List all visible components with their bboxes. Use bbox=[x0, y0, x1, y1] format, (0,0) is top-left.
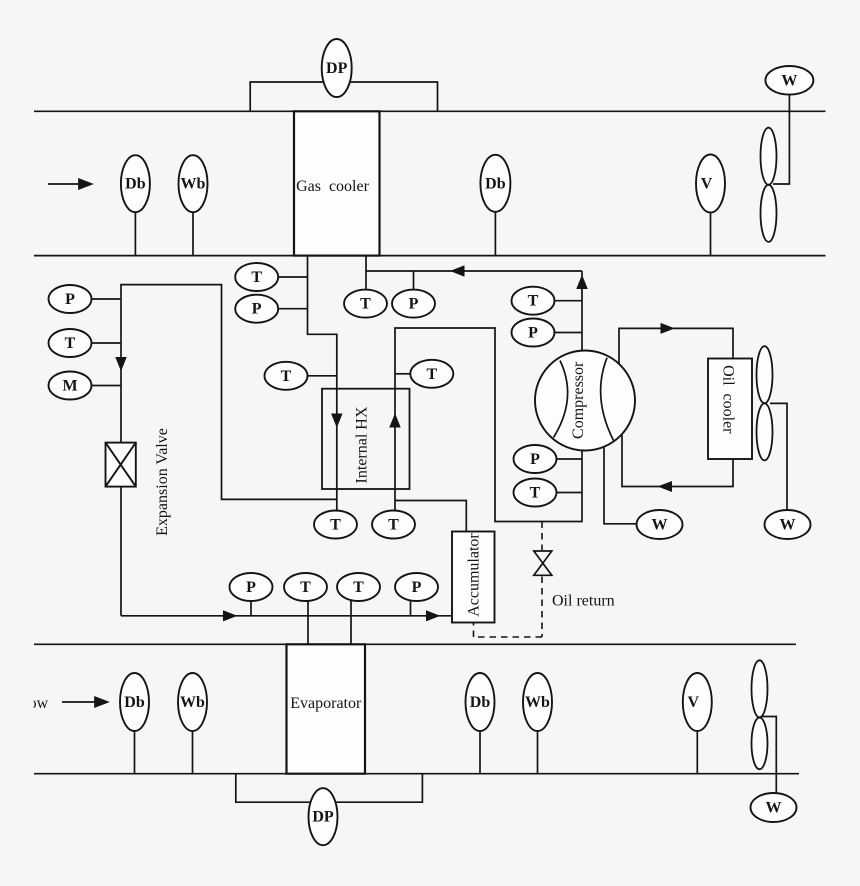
svg-text:V: V bbox=[688, 694, 700, 711]
svg-text:DP: DP bbox=[312, 809, 334, 826]
wire Wb4 stem bbox=[537, 720, 539, 774]
sensor Wb1 bbox=[179, 155, 208, 212]
sensor T evap inlet bbox=[284, 573, 327, 601]
sensor T HX hot inlet bbox=[265, 362, 308, 390]
wire oil supply bbox=[619, 328, 733, 364]
svg-text:T: T bbox=[426, 366, 437, 383]
wire T2 connector bbox=[278, 276, 308, 278]
wire T expansion connector bbox=[92, 342, 122, 344]
arrow HX hot down bbox=[332, 414, 342, 427]
wire suction P connector bbox=[556, 458, 582, 460]
svg-text:Compressor: Compressor bbox=[570, 361, 587, 439]
sensor DP2 bbox=[309, 788, 338, 845]
wire T stem on discharge header bbox=[365, 271, 367, 291]
svg-text:M: M bbox=[62, 378, 77, 395]
sensor T compressor suction bbox=[514, 479, 557, 507]
sensor P evap outlet bbox=[395, 573, 438, 601]
wire compressor discharge riser bbox=[581, 271, 583, 351]
svg-text:T: T bbox=[530, 485, 541, 502]
svg-text:W: W bbox=[652, 517, 668, 534]
arrow oil return left bbox=[659, 482, 672, 492]
svg-text:P: P bbox=[530, 451, 540, 468]
sensor W1 bbox=[765, 66, 813, 95]
sensor W bottom fan bbox=[751, 793, 797, 822]
svg-text:Db: Db bbox=[485, 175, 506, 192]
wire gas cooler inlet riser bbox=[366, 256, 582, 271]
arrow air inlet bottom bbox=[62, 697, 108, 707]
wire compressor W tap bbox=[604, 446, 637, 524]
expansion valve V1 bbox=[106, 443, 136, 487]
wire Db1 stem bbox=[134, 200, 136, 256]
svg-text:Oil return: Oil return bbox=[552, 593, 615, 610]
sensor P evap feed bbox=[230, 573, 273, 601]
sensor M flow meter bbox=[49, 372, 92, 400]
wire gas cooler outlet line bbox=[308, 256, 337, 511]
sensor Wb3 bbox=[178, 673, 207, 731]
sensor T HX cold outlet bbox=[410, 360, 453, 388]
wire top duct upper line bbox=[34, 110, 826, 112]
wire P stem on discharge header bbox=[413, 271, 415, 291]
sensor Db2 bbox=[480, 155, 510, 212]
arrow oil supply right bbox=[661, 324, 674, 334]
wire W bottom fan connector bbox=[762, 717, 776, 794]
wire P sensor connector compressor discharge P bbox=[554, 332, 582, 334]
sensor P2 (gc outlet P) bbox=[235, 295, 278, 323]
sensor V2 bbox=[683, 673, 712, 731]
compressor U1 bbox=[535, 351, 635, 451]
svg-text:W: W bbox=[780, 517, 796, 534]
svg-text:T: T bbox=[353, 579, 364, 596]
arrow discharge left bbox=[452, 266, 465, 276]
wire Db3 stem bbox=[134, 720, 136, 774]
wire internal HX cold channel bbox=[395, 328, 582, 522]
svg-text:P: P bbox=[412, 579, 422, 596]
wire W1 stem bbox=[773, 92, 789, 184]
wire P2 connector bbox=[278, 308, 308, 310]
svg-text:T: T bbox=[330, 517, 341, 534]
wire Db2 stem bbox=[494, 200, 496, 256]
svg-text:P: P bbox=[409, 296, 419, 313]
wire bottom duct lower line bbox=[34, 773, 799, 775]
sensor Db1 bbox=[121, 155, 150, 212]
arrow feed right 1 bbox=[224, 611, 237, 621]
wire feed line to evaporator bbox=[121, 615, 452, 617]
sensor T evap outlet bbox=[337, 573, 380, 601]
fan bottom duct bbox=[752, 660, 768, 769]
svg-text:P: P bbox=[252, 301, 262, 318]
svg-text:T: T bbox=[388, 517, 399, 534]
svg-text:T: T bbox=[251, 269, 262, 286]
sensor P compressor discharge bbox=[512, 319, 555, 347]
wire Wb3 stem bbox=[192, 720, 194, 774]
evaporator box bbox=[287, 644, 366, 773]
svg-text:V: V bbox=[701, 176, 713, 193]
wire DP2 bypass bbox=[236, 774, 423, 803]
oil return valve + dashed line bbox=[474, 522, 543, 638]
wire DP1 bypass bbox=[250, 82, 437, 111]
wire M expansion connector bbox=[92, 385, 122, 387]
wire oil fan connector bbox=[770, 403, 787, 511]
svg-text:T: T bbox=[300, 579, 311, 596]
wire top duct lower line bbox=[34, 255, 826, 257]
svg-text:T: T bbox=[528, 293, 539, 310]
wire P4 stem bbox=[410, 600, 412, 616]
sensor W compressor bbox=[637, 510, 683, 539]
sensor T HX cold inlet bbox=[372, 511, 415, 539]
sensor T expansion inlet bbox=[49, 329, 92, 357]
svg-text:Gas cooler: Gas cooler bbox=[296, 178, 370, 195]
wire P3 stem bbox=[250, 600, 252, 616]
wire P expansion connector bbox=[92, 298, 122, 300]
wire T hot HX inlet connector bbox=[308, 375, 337, 377]
wire suction T connector bbox=[556, 492, 582, 494]
svg-text:Db: Db bbox=[124, 694, 145, 711]
wire T sensor connector compressor discharge T bbox=[554, 300, 582, 302]
wire oil return bbox=[622, 435, 733, 487]
sensor T discharge header bbox=[344, 290, 387, 318]
svg-text:Accumulator: Accumulator bbox=[466, 533, 483, 617]
sensor DP1 bbox=[322, 39, 352, 97]
sensor T2 (gc outlet T) bbox=[235, 263, 278, 291]
wire Db4 stem bbox=[479, 720, 481, 774]
wire V2 stem bbox=[696, 720, 698, 774]
sensor Db4 bbox=[466, 673, 495, 731]
wire bottom duct upper line bbox=[34, 643, 796, 645]
svg-text:W: W bbox=[766, 800, 782, 817]
sensor T compressor discharge bbox=[512, 287, 555, 315]
svg-text:Evaporator: Evaporator bbox=[290, 695, 362, 712]
wire liquid line left bbox=[121, 285, 337, 616]
sensor P compressor suction bbox=[514, 445, 557, 473]
wire T cold HX outlet connector bbox=[395, 373, 410, 375]
svg-text:T: T bbox=[360, 296, 371, 313]
svg-text:Oil cooler: Oil cooler bbox=[720, 365, 737, 434]
svg-text:Db: Db bbox=[470, 694, 491, 711]
sensor P discharge header bbox=[392, 290, 435, 318]
accumulator bbox=[452, 532, 495, 623]
svg-text:P: P bbox=[65, 291, 75, 308]
sensor Wb4 bbox=[523, 673, 552, 731]
svg-text:Wb: Wb bbox=[525, 694, 550, 711]
arrow expansion down bbox=[116, 358, 126, 371]
oil cooler box bbox=[708, 359, 752, 460]
fan top right bbox=[761, 128, 777, 242]
sensor W oil fan bbox=[765, 510, 811, 539]
sensor P expansion inlet bbox=[49, 285, 92, 313]
wire V1 stem bbox=[710, 200, 712, 256]
svg-text:Expansion Valve: Expansion Valve bbox=[154, 428, 171, 536]
gas cooler box bbox=[294, 111, 380, 255]
svg-text:DP: DP bbox=[326, 60, 348, 77]
svg-text:Internal HX: Internal HX bbox=[354, 406, 371, 483]
valve oil return bbox=[534, 551, 552, 575]
arrow discharge up bbox=[577, 276, 587, 289]
arrow air inlet top bbox=[48, 179, 92, 189]
svg-text:P: P bbox=[246, 579, 256, 596]
sensor T HX hot outlet bbox=[314, 511, 357, 539]
internal HX box bbox=[322, 389, 410, 489]
svg-text:T: T bbox=[65, 335, 76, 352]
fan oil cooler bbox=[757, 346, 773, 460]
wire evaporator inlet stem bbox=[307, 599, 309, 644]
svg-text:Db: Db bbox=[125, 176, 146, 193]
svg-text:Wb: Wb bbox=[181, 176, 206, 193]
svg-text:T: T bbox=[281, 368, 292, 385]
sensor Db3 bbox=[120, 673, 149, 731]
svg-text:Wb: Wb bbox=[180, 694, 205, 711]
wire suction jog to accumulator bbox=[395, 501, 466, 532]
sensor V1 bbox=[696, 155, 725, 213]
svg-text:P: P bbox=[528, 325, 538, 342]
svg-text:W: W bbox=[781, 72, 797, 89]
wire evaporator outlet stem bbox=[350, 599, 352, 644]
wire Wb1 stem bbox=[192, 200, 194, 256]
arrow HX cold up bbox=[390, 415, 400, 428]
arrow feed right 2 bbox=[427, 611, 440, 621]
